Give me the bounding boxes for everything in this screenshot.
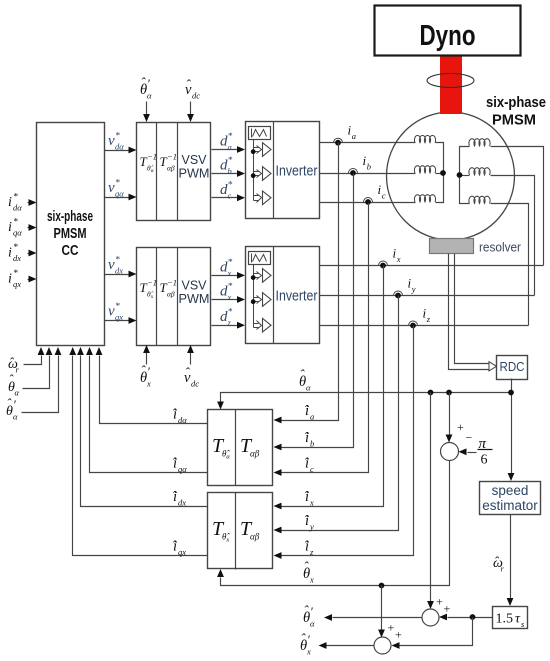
- svg-text:v: v: [108, 257, 115, 273]
- svg-text:i: i: [8, 272, 12, 287]
- sensor i_x: [379, 246, 401, 269]
- svg-text:PWM: PWM: [179, 292, 210, 306]
- sensor i_z: [409, 306, 431, 329]
- wire 1.5ts to sum2: [439, 614, 493, 621]
- svg-text:+: +: [444, 602, 451, 616]
- wire phase z: [320, 325, 529, 327]
- svg-text:i: i: [8, 195, 12, 210]
- svg-text:a: a: [310, 412, 314, 422]
- wire i_b feedback: [274, 174, 354, 451]
- svg-text:six-phase: six-phase: [486, 94, 546, 111]
- wire i_x feedback: [274, 266, 384, 510]
- node left neutral: [440, 170, 446, 176]
- svg-text:x: x: [309, 575, 314, 585]
- svg-text:ˆ: ˆ: [7, 396, 12, 411]
- svg-text:qα: qα: [178, 464, 187, 474]
- svg-text:CC: CC: [62, 243, 79, 259]
- wire d*_x1: [212, 258, 246, 279]
- svg-text:−1: −1: [167, 278, 177, 288]
- svg-text:αβ: αβ: [167, 164, 175, 173]
- svg-text:αβ: αβ: [167, 290, 175, 299]
- coupling ellipse: [427, 74, 474, 88]
- svg-text:qx: qx: [178, 547, 186, 557]
- resolver cable pipe to RDC: [449, 254, 497, 371]
- node theta_a j2: [446, 390, 452, 396]
- wire coil x to phase x: [491, 147, 544, 266]
- input v_dc to PWM1: [185, 77, 200, 122]
- svg-text:Dyno: Dyno: [420, 20, 476, 52]
- wire theta_a line: [217, 393, 511, 410]
- svg-text:a: a: [228, 142, 232, 152]
- svg-text:qα: qα: [115, 189, 124, 199]
- input theta'_a to PWM1: [140, 75, 152, 122]
- wire d*_c: [212, 180, 246, 201]
- svg-text:*: *: [13, 269, 18, 279]
- svg-text:dα: dα: [115, 142, 124, 152]
- block RDC: [497, 356, 528, 380]
- block Dyno: [375, 6, 521, 56]
- label theta_a: [299, 367, 311, 393]
- svg-text:+: +: [388, 621, 395, 635]
- svg-text:α: α: [306, 383, 311, 393]
- wire coil z to phase z: [491, 204, 529, 326]
- svg-text:dα: dα: [13, 203, 22, 213]
- svg-text:1.5: 1.5: [496, 612, 514, 627]
- svg-text:*: *: [115, 132, 120, 142]
- wire phase b: [320, 173, 416, 175]
- sign plus sum2b: [444, 602, 451, 616]
- wire coil y to phase y: [491, 176, 535, 296]
- left winding neutral bus: [436, 143, 444, 203]
- svg-text:estimator: estimator: [482, 498, 538, 513]
- node right neutral: [457, 172, 463, 178]
- svg-text:α: α: [13, 412, 18, 422]
- output theta'_x: [300, 631, 375, 657]
- sum junction 3: [374, 637, 391, 654]
- svg-text:speed: speed: [492, 483, 529, 498]
- svg-text:*: *: [228, 132, 233, 142]
- label resolver: [479, 240, 522, 255]
- svg-text:−1: −1: [167, 152, 177, 162]
- svg-text:qx: qx: [13, 279, 21, 289]
- wire theta_a to sum2: [427, 393, 434, 610]
- svg-text:x: x: [227, 292, 232, 302]
- block 1.5 tau_s: [493, 607, 528, 630]
- wire RDC to speed estimator: [508, 379, 515, 482]
- svg-text:b: b: [228, 166, 232, 176]
- block speed estimator: [480, 482, 541, 515]
- block T1 (alpha): [208, 410, 273, 486]
- wire i_z feedback: [274, 326, 414, 559]
- wire i_c feedback: [274, 203, 369, 476]
- svg-text:α: α: [147, 91, 152, 101]
- svg-text:′: ′: [147, 365, 150, 379]
- svg-text:b: b: [310, 439, 314, 449]
- right winding coil z: [469, 196, 490, 203]
- input i*_qa: [8, 218, 37, 238]
- svg-text:y: y: [411, 284, 416, 294]
- label theta_x: [303, 559, 314, 585]
- svg-text:6: 6: [481, 453, 488, 468]
- sum junction 1: [441, 443, 459, 461]
- svg-text:*: *: [115, 256, 120, 266]
- svg-text:RDC: RDC: [500, 360, 525, 374]
- wire branch to sum3: [392, 618, 473, 649]
- output theta'_a: [303, 603, 423, 629]
- wire d*_x2: [212, 282, 246, 303]
- sensor i_a: [334, 123, 356, 146]
- svg-text:′: ′: [13, 398, 16, 412]
- svg-text:*: *: [115, 302, 120, 312]
- svg-text:*: *: [13, 193, 18, 203]
- svg-text:qx: qx: [115, 312, 123, 322]
- label six-phase PMSM (motor): [486, 94, 546, 129]
- svg-text:a: a: [352, 131, 356, 141]
- svg-text:i: i: [8, 246, 12, 261]
- right winding bus: [460, 147, 470, 204]
- svg-text:c: c: [382, 191, 386, 201]
- sign plus sum3a: [388, 621, 395, 635]
- svg-text:*: *: [228, 156, 233, 166]
- svg-text:dx: dx: [178, 498, 186, 508]
- wire i_qa hat to CC: [86, 347, 207, 474]
- wire phase y: [320, 295, 535, 297]
- input i*_qx: [8, 269, 37, 289]
- svg-text:ˆ: ˆ: [9, 372, 14, 387]
- wire phase x: [320, 265, 544, 267]
- svg-text:i: i: [8, 220, 12, 235]
- block Inverter 1: [246, 122, 320, 219]
- sign minus sum1: [466, 431, 473, 445]
- svg-text:*: *: [228, 180, 233, 190]
- svg-text:x: x: [309, 498, 314, 508]
- block T2 (x): [208, 493, 273, 570]
- node theta_x j: [379, 583, 385, 589]
- wire v*_qx: [105, 302, 137, 324]
- sensor i_b: [349, 153, 371, 176]
- svg-text:*: *: [13, 218, 18, 228]
- svg-text:−1: −1: [147, 152, 157, 162]
- sign plus sum1: [457, 420, 464, 434]
- block Inverter 2: [246, 247, 320, 344]
- svg-text:+: +: [395, 628, 402, 642]
- block VSV PWM 1: [137, 123, 211, 221]
- svg-text:VSV: VSV: [181, 279, 207, 293]
- svg-text:*: *: [115, 179, 120, 189]
- wire i_y feedback: [274, 296, 399, 534]
- svg-text:x: x: [396, 254, 401, 264]
- svg-text:′: ′: [147, 77, 150, 91]
- left winding coil a: [414, 135, 435, 142]
- block VSV PWM 2: [137, 248, 211, 346]
- sign plus sum3b: [395, 628, 402, 642]
- svg-text:z: z: [309, 547, 314, 557]
- svg-text:dx: dx: [13, 253, 21, 263]
- node theta_a j3: [508, 390, 514, 396]
- svg-text:z: z: [227, 318, 232, 328]
- input theta'_a to CC: [6, 347, 61, 422]
- svg-text:x: x: [227, 268, 232, 278]
- svg-text:ˆ: ˆ: [494, 554, 499, 569]
- svg-text:*: *: [13, 243, 18, 253]
- svg-text:dx: dx: [115, 266, 123, 276]
- sum junction 2: [422, 609, 439, 626]
- svg-text:′: ′: [307, 633, 310, 647]
- svg-text:*: *: [228, 258, 233, 268]
- svg-text:v: v: [108, 180, 115, 196]
- svg-text:c: c: [228, 190, 232, 200]
- svg-text:+: +: [457, 420, 464, 434]
- svg-text:z: z: [426, 314, 431, 324]
- svg-text:−1: −1: [147, 278, 157, 288]
- svg-text:x: x: [146, 379, 151, 389]
- svg-text:*: *: [228, 308, 233, 318]
- svg-text:v: v: [108, 133, 115, 149]
- wire phase c: [320, 202, 416, 204]
- svg-text:PMSM: PMSM: [54, 226, 87, 242]
- input theta'_x to PWM2: [140, 345, 151, 389]
- sign plus sum2a: [436, 595, 443, 609]
- input omega_r to CC: [8, 347, 44, 375]
- wire d*_z: [212, 308, 246, 329]
- left winding coil c: [414, 195, 435, 202]
- svg-text:qα: qα: [13, 228, 22, 238]
- wire d*_b: [212, 156, 246, 177]
- wire i_dx hat to CC: [77, 347, 207, 508]
- wire d*_a: [212, 132, 246, 153]
- right winding coil y: [469, 168, 490, 175]
- red shaft coupling Dyno to motor: [440, 54, 462, 114]
- svg-text:Inverter: Inverter: [276, 288, 318, 305]
- block six-phase PMSM CC: [37, 123, 105, 346]
- svg-text:v: v: [108, 304, 115, 320]
- svg-text:Inverter: Inverter: [276, 163, 318, 180]
- left winding coil b: [414, 166, 435, 173]
- svg-text:αβ: αβ: [250, 532, 260, 542]
- wire i_a feedback: [274, 143, 339, 424]
- svg-text:VSV: VSV: [181, 153, 207, 167]
- const pi/6: [459, 436, 493, 468]
- right winding coil x: [469, 139, 490, 146]
- resolver body: [430, 239, 474, 254]
- svg-text:*: *: [228, 282, 233, 292]
- wire i_qx hat to CC: [69, 347, 207, 557]
- sensor i_y: [394, 276, 416, 299]
- wire to sum1: [446, 393, 453, 443]
- svg-text:c: c: [310, 464, 314, 474]
- wire theta_x to sum3: [378, 586, 385, 638]
- svg-text:six-phase: six-phase: [47, 209, 93, 225]
- svg-text:PMSM: PMSM: [492, 112, 536, 129]
- svg-text:b: b: [367, 162, 371, 172]
- motor stator circle: [387, 112, 515, 240]
- svg-text:′: ′: [310, 605, 313, 619]
- svg-text:α: α: [310, 619, 315, 629]
- svg-text:y: y: [309, 522, 314, 532]
- input i*_da: [8, 193, 37, 213]
- wire v*_da: [105, 132, 137, 154]
- node 1.5ts branch: [470, 614, 476, 620]
- node theta_a j1: [428, 390, 434, 396]
- wire phase a: [320, 142, 416, 144]
- input v_dc to PWM2: [184, 345, 199, 389]
- wire i_da hat to CC: [96, 347, 208, 425]
- input i*_dx: [8, 243, 37, 263]
- svg-text:x: x: [306, 647, 311, 657]
- wire v*_qa: [105, 179, 137, 201]
- svg-text:−: −: [466, 431, 473, 445]
- svg-text:dc: dc: [192, 91, 200, 101]
- svg-text:dc: dc: [191, 379, 199, 389]
- svg-text:ˆ: ˆ: [9, 355, 14, 370]
- svg-text:αβ: αβ: [250, 449, 260, 459]
- svg-text:dα: dα: [178, 415, 187, 425]
- sensor i_c: [364, 182, 386, 205]
- wire sum1 to theta_x line: [217, 461, 449, 586]
- svg-text:PWM: PWM: [179, 167, 210, 181]
- wire speed est to 1.5ts: [493, 515, 513, 607]
- svg-text:α: α: [15, 388, 20, 398]
- wire v*_dx: [105, 256, 137, 278]
- svg-text:+: +: [436, 595, 443, 609]
- input theta_a to CC: [8, 347, 52, 398]
- svg-text:resolver: resolver: [479, 240, 522, 255]
